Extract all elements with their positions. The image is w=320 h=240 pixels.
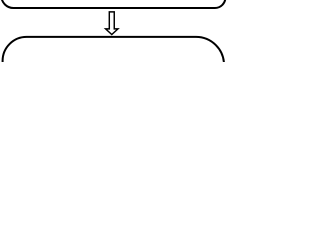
background: [0, 0, 227, 62]
top terminator node (bottom edge visible): [1, 0, 225, 8]
connector arrow (outline block down-arrow): [106, 12, 118, 35]
bottom terminator node (top edge visible): [3, 37, 224, 66]
